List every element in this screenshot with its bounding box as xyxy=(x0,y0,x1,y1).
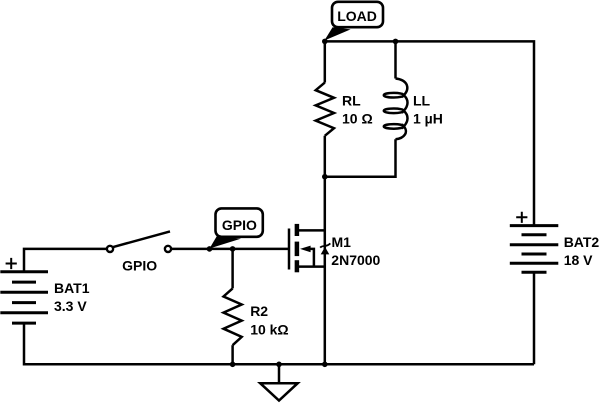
mosfet M1 source lead xyxy=(299,265,325,268)
flag GPIO bubble xyxy=(216,208,263,236)
svg-text:LOAD: LOAD xyxy=(337,8,377,24)
svg-text:10 kΩ: 10 kΩ xyxy=(250,321,288,337)
flag GPIO pointer xyxy=(210,236,242,249)
svg-text:1 µH: 1 µH xyxy=(413,111,443,127)
mosfet M1 body arrow xyxy=(300,246,311,253)
flag LOAD bubble xyxy=(332,2,383,27)
svg-text:BAT2: BAT2 xyxy=(564,234,600,250)
svg-text:M1: M1 xyxy=(332,234,352,250)
wire main vertical lower (RL to bottom rail) xyxy=(324,136,327,364)
node R2 top junction dot xyxy=(230,246,236,252)
battery BAT1 xyxy=(0,272,48,323)
svg-text:GPIO: GPIO xyxy=(122,258,157,274)
wire LL bottom to node xyxy=(325,139,396,176)
svg-text:LL: LL xyxy=(413,93,431,109)
wire bottom rail xyxy=(24,323,534,364)
resistor R2 xyxy=(224,288,242,345)
mosfet M1 diode tick xyxy=(320,243,330,247)
node ground junction dot xyxy=(276,362,282,368)
resistor RL xyxy=(316,83,334,136)
inductor LL xyxy=(384,79,408,140)
wire BAT1 top to switch xyxy=(24,249,106,272)
svg-text:R2: R2 xyxy=(250,303,268,319)
wire LL top xyxy=(394,41,397,78)
node RL/LL bottom junction dot xyxy=(322,174,328,180)
wire ground stem xyxy=(278,364,281,383)
mosfet M1 body diode xyxy=(321,247,330,255)
plus sign BAT1 xyxy=(6,258,17,269)
wire switch to gate xyxy=(172,248,289,251)
mosfet M1 drain lead xyxy=(299,229,325,232)
svg-text:2N7000: 2N7000 xyxy=(331,252,380,268)
svg-text:10 Ω: 10 Ω xyxy=(342,111,373,127)
plus sign BAT2 xyxy=(516,212,527,223)
wire R2 bottom xyxy=(231,345,234,364)
wire main vertical upper (node to RL) xyxy=(324,41,327,82)
node source bottom junction dot xyxy=(322,362,328,368)
mosfet M1 gate line xyxy=(288,229,291,270)
node LL top junction dot xyxy=(393,39,399,45)
wire BAT2 bottom to bottom rail xyxy=(533,272,536,364)
svg-text:BAT1: BAT1 xyxy=(54,280,90,296)
flag LOAD pointer xyxy=(324,27,350,40)
ground xyxy=(260,383,298,400)
svg-text:RL: RL xyxy=(342,93,361,109)
svg-text:3.3 V: 3.3 V xyxy=(54,298,87,314)
wire top rail from LOAD node to BAT2 xyxy=(325,41,534,225)
switch left terminal xyxy=(107,246,113,252)
svg-text:GPIO: GPIO xyxy=(222,217,257,233)
node R2 bottom junction dot xyxy=(230,362,236,368)
switch SW1 lever xyxy=(113,231,170,247)
mosfet M1 channel bars xyxy=(295,224,300,272)
svg-text:18 V: 18 V xyxy=(564,252,593,268)
node LOAD junction dot xyxy=(322,39,328,45)
mosfet M1 body lead xyxy=(310,249,314,267)
switch right terminal xyxy=(165,246,171,252)
node GPIO flag junction dot xyxy=(207,246,213,252)
wire R2 top xyxy=(231,249,234,289)
battery BAT2 xyxy=(510,226,559,273)
